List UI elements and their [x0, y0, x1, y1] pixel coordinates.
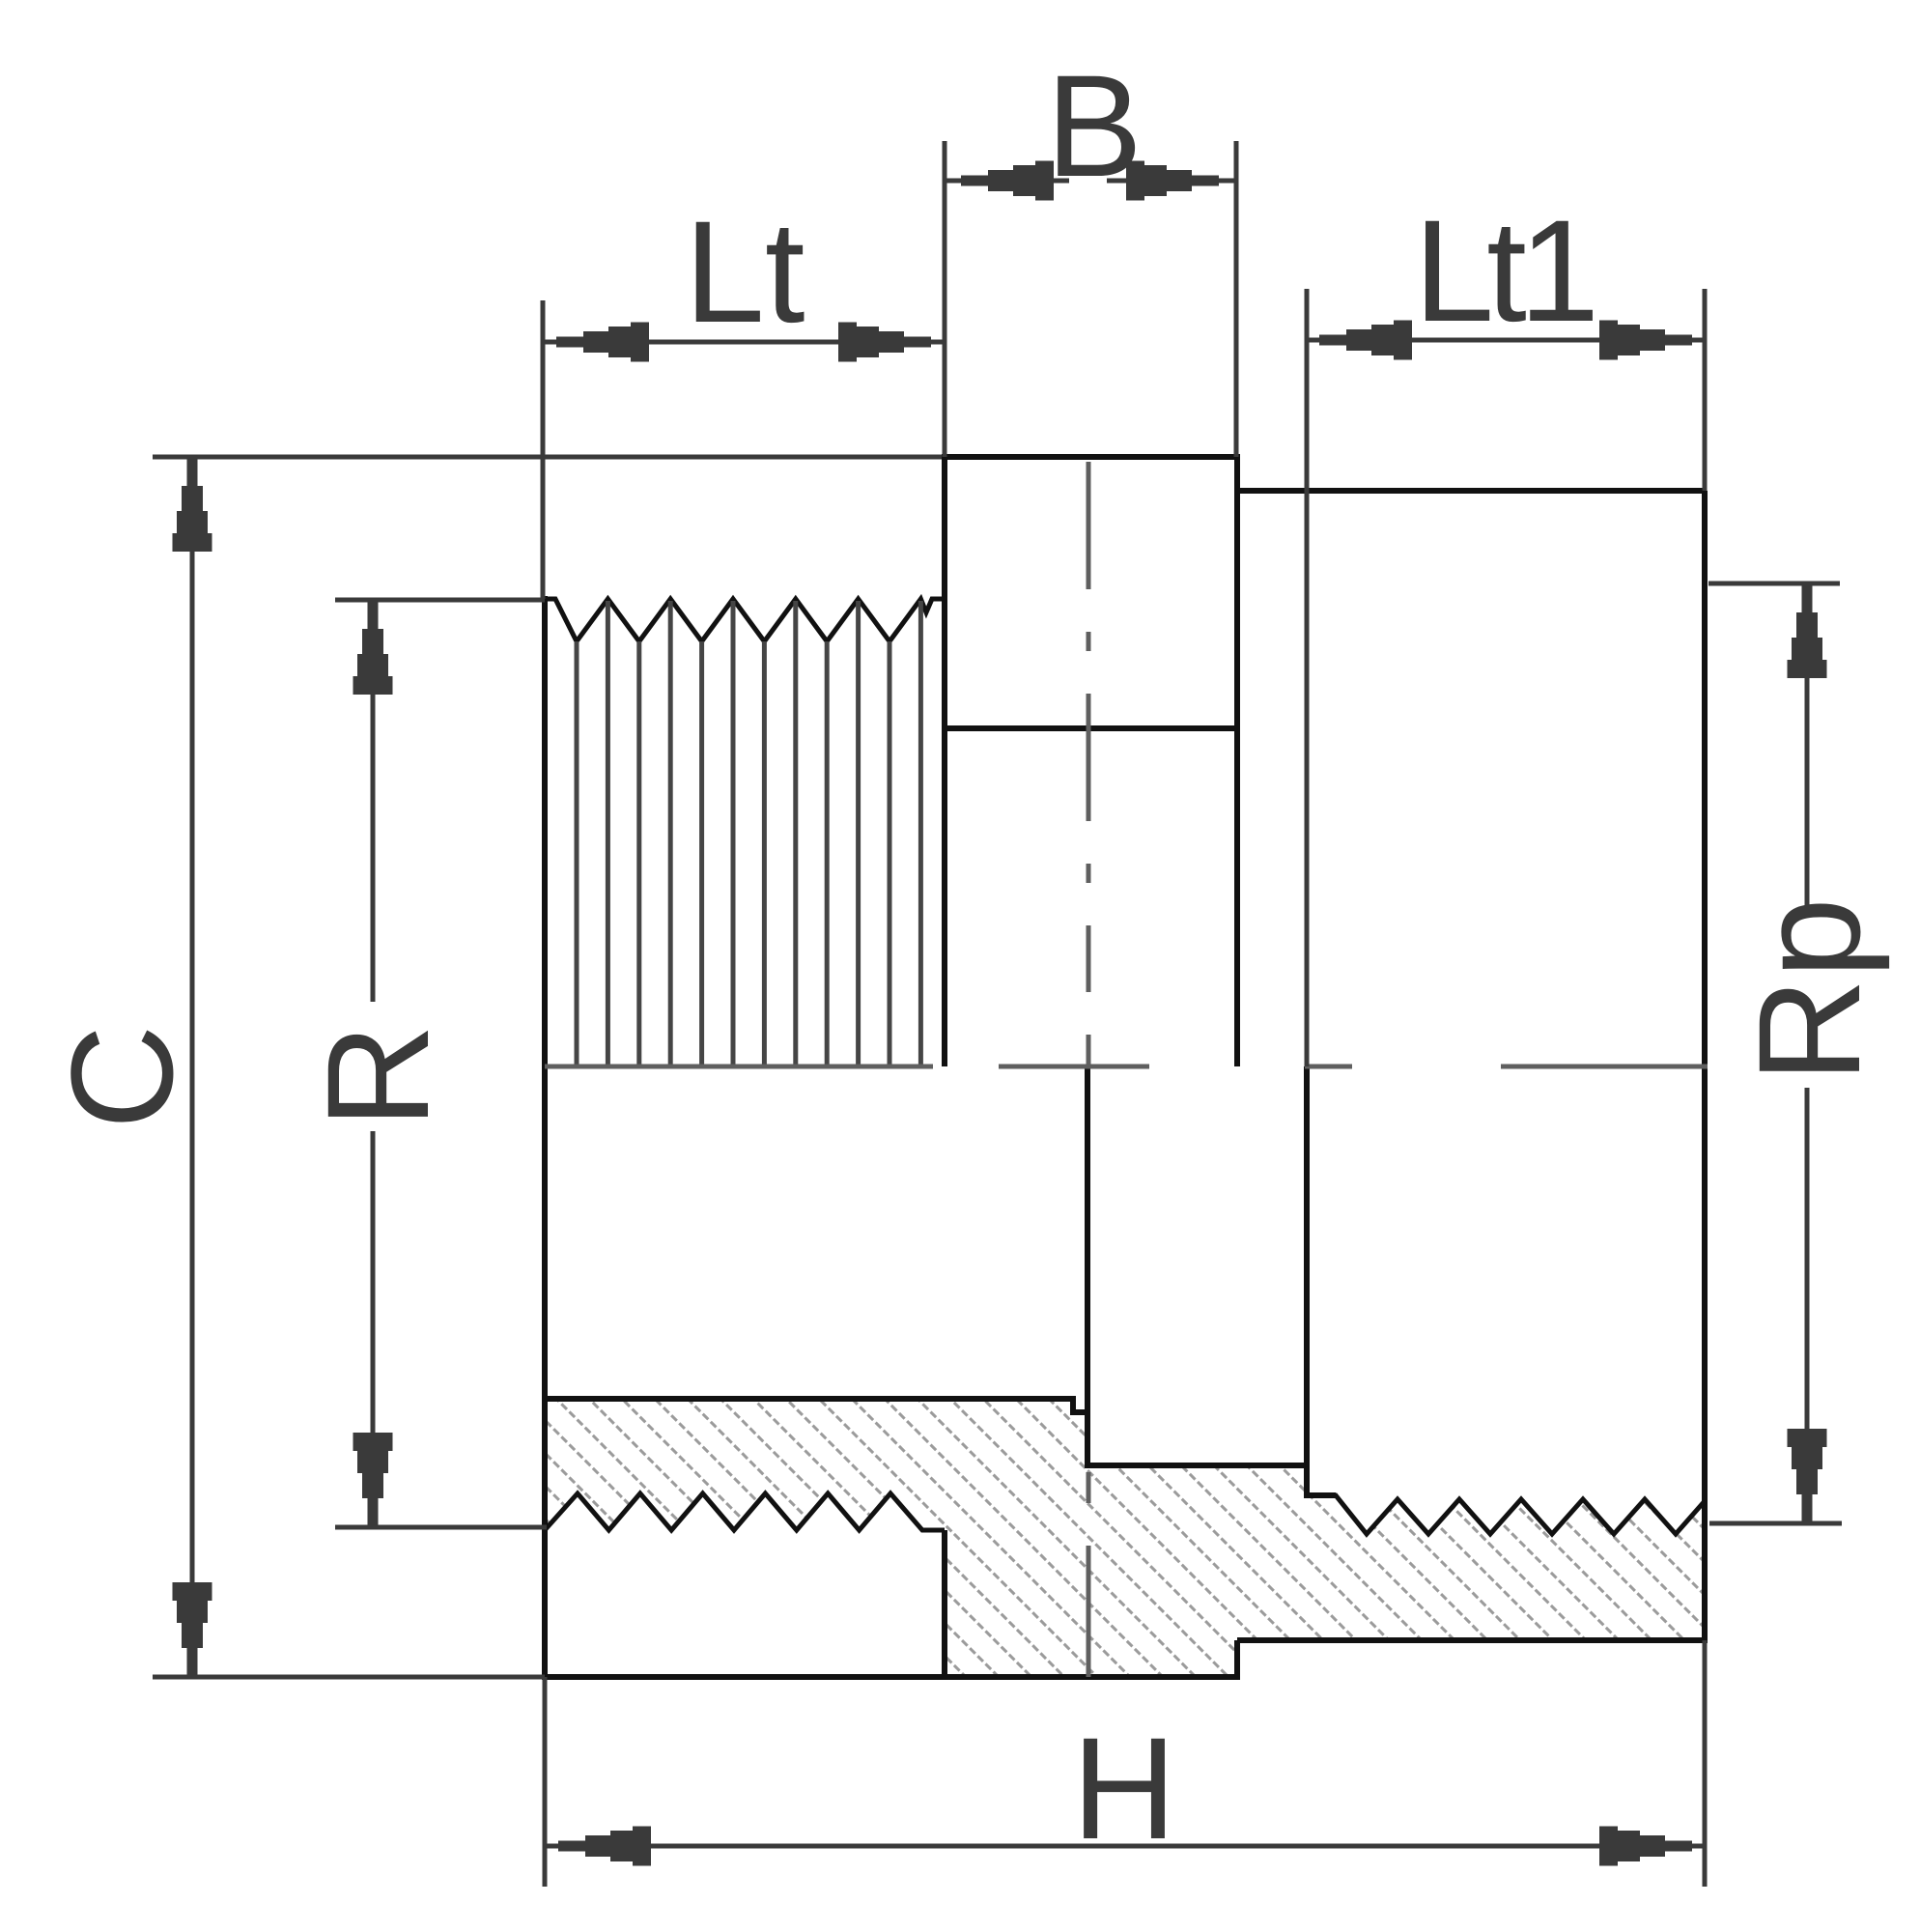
B dimension line right — [1107, 179, 1236, 184]
Lt left extension line — [541, 300, 546, 599]
Lt1 left extension line — [1305, 289, 1310, 1066]
R top arrow — [353, 602, 393, 695]
Lt right arrow — [838, 323, 931, 362]
B dimension line left — [945, 179, 1069, 184]
Lt1 dimension line — [1307, 338, 1705, 343]
male thread flank lines — [577, 601, 920, 1066]
bottom edge left — [542, 1674, 1240, 1680]
Lt1 right arrow — [1599, 321, 1692, 360]
B right extension line — [1234, 141, 1239, 457]
Lt1 left arrow — [1319, 321, 1412, 360]
B right arrow — [1126, 161, 1219, 201]
svg-text:Lt: Lt — [684, 190, 805, 353]
section hatching — [483, 77, 1738, 1932]
H dimension line — [545, 1844, 1705, 1849]
C top extension line — [153, 455, 942, 460]
H left arrow — [558, 1827, 651, 1866]
vertical centerline of collar — [1087, 462, 1091, 1677]
wall top line — [545, 1399, 1086, 1412]
socket shoulder step — [1307, 1492, 1336, 1498]
female thread root zigzag — [1307, 1495, 1705, 1534]
Lt dimension line — [543, 340, 945, 345]
bore bottom edge — [1085, 1463, 1307, 1468]
svg-text:R: R — [296, 1024, 459, 1128]
C bottom arrow — [173, 1582, 212, 1675]
R bottom extension line — [335, 1525, 547, 1530]
H right arrow — [1599, 1827, 1692, 1866]
collar right edge — [1234, 457, 1240, 1066]
R top extension line — [335, 598, 545, 603]
C top arrow — [173, 459, 212, 552]
B left arrow — [961, 161, 1054, 201]
bore left edge — [1085, 1066, 1090, 1465]
Rp top extension line — [1708, 582, 1840, 586]
H left extension line — [543, 1677, 548, 1887]
collar left edge — [942, 457, 947, 1066]
C dimension line — [190, 457, 195, 1677]
H right extension line — [1703, 1640, 1708, 1887]
svg-text:Lt1: Lt1 — [1414, 189, 1594, 352]
svg-text:C: C — [41, 1025, 203, 1129]
R dimension line upper — [371, 600, 376, 1002]
Rp dimension line lower — [1805, 1088, 1810, 1523]
svg-text:H: H — [1072, 1707, 1176, 1869]
socket right face — [1702, 491, 1708, 1640]
svg-text:Rp: Rp — [1728, 897, 1890, 1083]
bottom edge right — [1237, 1637, 1708, 1643]
R bottom arrow — [353, 1433, 393, 1525]
male thread root zigzag — [545, 1493, 945, 1530]
Rp bottom arrow — [1788, 1429, 1827, 1521]
Lt left arrow — [556, 323, 649, 362]
R dimension line lower — [371, 1131, 376, 1527]
collar lower left step — [942, 1530, 947, 1677]
bottom step — [1234, 1640, 1240, 1680]
male end face (left) — [542, 596, 548, 1677]
socket top edge — [1237, 488, 1705, 494]
collar top edge — [942, 454, 1240, 460]
svg-text:B: B — [1046, 44, 1143, 207]
Rp bottom extension line — [1709, 1521, 1842, 1526]
socket inner shoulder — [1304, 1066, 1310, 1498]
Rp dimension line upper — [1805, 583, 1810, 918]
horizontal axis centerline — [545, 1065, 1708, 1069]
male thread crest zigzag — [545, 599, 945, 641]
Lt1 right extension line — [1703, 289, 1708, 491]
collar mid line — [945, 725, 1237, 731]
C bottom extension line — [153, 1675, 545, 1680]
Lt right extension line — [943, 141, 947, 457]
Rp top arrow — [1788, 585, 1827, 678]
